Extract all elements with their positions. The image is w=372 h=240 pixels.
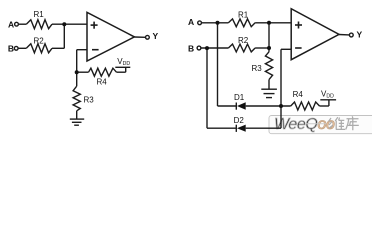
svg-text:R2: R2: [238, 36, 249, 45]
svg-text:R3: R3: [252, 64, 263, 73]
svg-text:A: A: [8, 19, 14, 29]
svg-text:B: B: [188, 43, 194, 53]
svg-text:D2: D2: [234, 116, 245, 125]
svg-text:R4: R4: [293, 90, 304, 99]
svg-text:VDD: VDD: [117, 57, 130, 67]
svg-text:D1: D1: [234, 93, 245, 102]
svg-text:VDD: VDD: [321, 90, 334, 100]
svg-text:Y: Y: [153, 31, 159, 41]
svg-text:R1: R1: [238, 10, 249, 19]
svg-text:R4: R4: [97, 78, 108, 87]
svg-text:B: B: [8, 43, 14, 53]
svg-text:R2: R2: [34, 36, 45, 45]
svg-text:A: A: [188, 17, 194, 27]
svg-text:R3: R3: [84, 95, 95, 104]
svg-text:Y: Y: [357, 29, 363, 39]
svg-text:R1: R1: [34, 10, 45, 19]
svg-text:WeeQoo: WeeQoo: [274, 116, 335, 133]
